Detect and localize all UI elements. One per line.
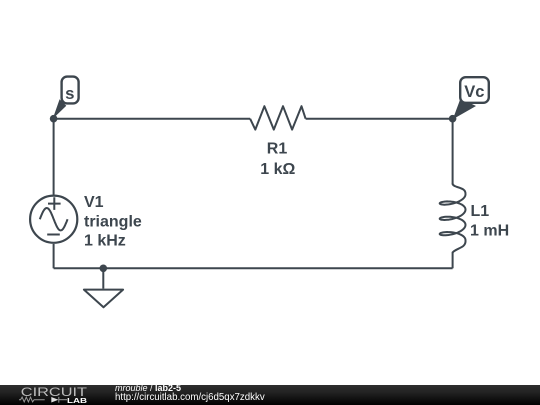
svg-text:1 kΩ: 1 kΩ [260, 161, 295, 178]
svg-text:1 mH: 1 mH [470, 223, 509, 240]
svg-text:V1: V1 [84, 194, 104, 211]
svg-text:1 kHz: 1 kHz [84, 233, 126, 250]
svg-text:R1: R1 [267, 140, 288, 157]
svg-text:Vc: Vc [464, 83, 484, 101]
svg-text:triangle: triangle [84, 213, 142, 230]
svg-text:L1: L1 [471, 203, 490, 220]
svg-text:s: s [65, 84, 74, 103]
svg-text:LAB: LAB [67, 395, 88, 404]
